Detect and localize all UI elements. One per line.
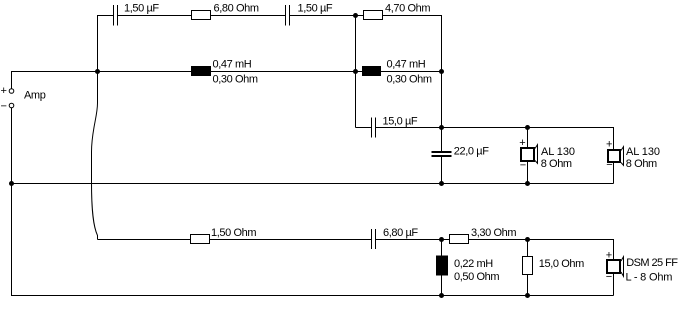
wire: bottom rail1 (woofer return) y=183: [12, 183, 614, 185]
resistor R3 1,50 Ohm: [191, 235, 210, 244]
svg-text:3,30 Ohm: 3,30 Ohm: [471, 227, 516, 239]
svg-text:1,50 Ohm: 1,50 Ohm: [211, 227, 256, 239]
node F junction dot: [439, 237, 444, 242]
capacitor C2 1,50 uF: [286, 5, 290, 26]
wire: C2 to node B: [290, 15, 356, 17]
wire: SP1 bottom lead to rail1: [527, 162, 529, 184]
wire: R1 to C2: [211, 15, 286, 17]
svg-text:AL 130: AL 130: [626, 146, 660, 158]
wire: mid row y=127 from x=355 to capacitor C3: [356, 127, 372, 129]
node D junction dot: [439, 125, 444, 130]
svg-text:+: +: [606, 139, 612, 151]
inductor L1 0,47 mH: [191, 66, 211, 76]
svg-text:L - 8 Ohm: L - 8 Ohm: [626, 271, 673, 283]
svg-text:−: −: [1, 100, 7, 112]
svg-text:0,30 Ohm: 0,30 Ohm: [213, 74, 258, 86]
svg-text:15,0 Ohm: 15,0 Ohm: [539, 258, 584, 270]
wire: top cap row y=15 from branch to capacitor C1: [97, 15, 113, 17]
svg-text:8 Ohm: 8 Ohm: [626, 158, 657, 170]
svg-text:0,22 mH: 0,22 mH: [454, 258, 493, 270]
svg-text:0,47 mH: 0,47 mH: [213, 59, 252, 71]
wire: speaker SP1 top lead: [527, 128, 529, 149]
svg-text:8 Ohm: 8 Ohm: [541, 158, 572, 170]
node B junction dot top: [353, 13, 358, 18]
svg-text:DSM 25 FF: DSM 25 FF: [626, 257, 678, 269]
node B junction dot middle: [353, 69, 358, 74]
wire: R4 to node G and on to tweeter: [469, 240, 614, 261]
resistor R5 15,0 Ohm shunt: [523, 257, 533, 275]
wire: node G down to resistor R5: [527, 240, 529, 257]
node A junction dot: [95, 69, 100, 74]
svg-text:1,50 µF: 1,50 µF: [298, 3, 333, 15]
resistor R1 6,80 Ohm: [192, 11, 211, 20]
capacitor C3 15,0 uF: [372, 118, 376, 138]
wire: C4 bottom plate to rail1: [441, 157, 443, 184]
junction dot C4 to rail1: [439, 181, 444, 186]
wire: R3 to C5: [210, 239, 372, 241]
node E junction dot speaker1 top: [525, 125, 530, 130]
speaker SP1 AL 130: [521, 145, 538, 164]
wire: C5 to node F: [376, 239, 450, 241]
capacitor C4 22,0 uF shunt: [432, 152, 452, 156]
svg-text:+: +: [1, 85, 7, 97]
svg-text:0,50 Ohm: 0,50 Ohm: [454, 271, 499, 283]
svg-text:4,70 Ohm: 4,70 Ohm: [385, 3, 430, 15]
svg-text:0,30 Ohm: 0,30 Ohm: [387, 74, 432, 86]
junction dot R5 to rail2: [525, 293, 530, 298]
svg-text:−: −: [606, 271, 612, 283]
wire: curved branch from node A down to tweeter row: [92, 72, 98, 240]
svg-text:+: +: [519, 137, 525, 149]
wire: R2 to right vertical then down to node C: [383, 16, 442, 72]
capacitor C5 6,80 uF: [372, 229, 376, 249]
svg-text:15,0 µF: 15,0 µF: [383, 116, 418, 128]
svg-text:Amp: Amp: [24, 90, 46, 102]
svg-text:−: −: [520, 159, 526, 171]
wire: right vertical x=441 from y=15 corner down to C4 top plate: [441, 72, 443, 152]
terminal - circle of Amp: [9, 103, 14, 108]
capacitor C1 1,50 uF: [114, 5, 118, 26]
wire: R5 to rail2: [527, 275, 529, 296]
resistor R4 3,30 Ohm: [450, 235, 469, 244]
wire: tweeter row y=239 to R3: [98, 239, 191, 241]
wire: SP3 bottom lead to rail2: [613, 273, 615, 296]
junction dot rail1 at amp minus: [9, 181, 14, 186]
svg-text:+: +: [606, 250, 612, 262]
wire: C3 to node D and on to speakers: [376, 128, 614, 151]
inductor L2 0,47 mH: [362, 66, 381, 76]
junction dot L3 to rail2: [439, 293, 444, 298]
svg-text:6,80 Ohm: 6,80 Ohm: [214, 3, 259, 15]
junction dot SP1 to rail1: [525, 181, 530, 186]
svg-text:6,80 µF: 6,80 µF: [383, 227, 418, 239]
wire: node B to R2: [356, 15, 364, 17]
wire: node F down to inductor L3: [441, 240, 443, 256]
svg-text:22,0 µF: 22,0 µF: [454, 146, 489, 158]
svg-text:0,47 mH: 0,47 mH: [387, 59, 426, 71]
terminal + circle of Amp: [9, 89, 14, 94]
node C junction dot: [439, 69, 444, 74]
node G junction dot: [525, 237, 530, 242]
wire: node B vertical x=355 from y=15 to y=127: [355, 16, 357, 128]
svg-text:1,50 µF: 1,50 µF: [124, 3, 159, 15]
wire: C1 to R1: [118, 15, 192, 17]
svg-text:−: −: [606, 159, 612, 171]
inductor L3 0,22 mH shunt: [436, 256, 448, 276]
wire: amp minus terminal down to bottom rail2 then right to tweeter: [12, 108, 614, 296]
resistor R2 4,70 Ohm: [364, 11, 383, 20]
svg-text:AL 130: AL 130: [541, 146, 575, 158]
wire: SP2 bottom lead to rail1: [613, 163, 615, 184]
wire: amp plus terminal up to main top rail y=71 then right to node A: [12, 72, 442, 89]
speaker SP2 AL 130: [608, 147, 624, 166]
speaker SP3 tweeter DSM 25 FF: [607, 257, 624, 277]
wire: L3 to rail2: [441, 276, 443, 296]
wire: vertical branch x=97 from top cap row to node A: [97, 15, 99, 72]
